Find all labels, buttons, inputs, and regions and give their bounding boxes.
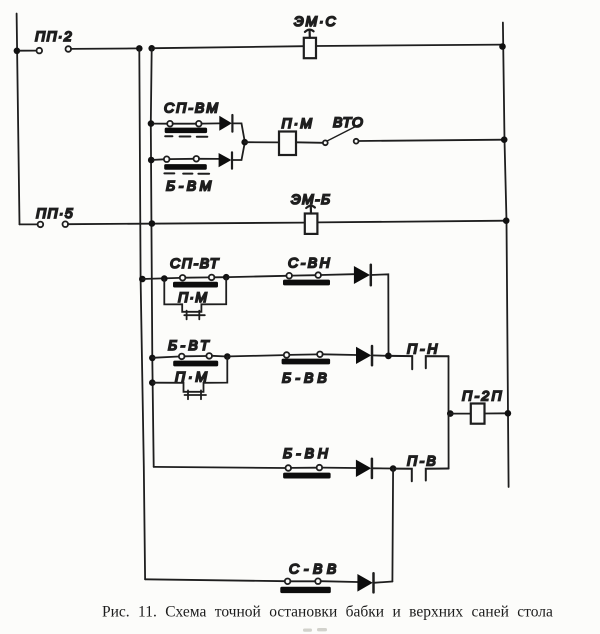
wire П-В up to П-2П node (448, 414, 450, 469)
wire П-Н down to П-2П (448, 356, 450, 413)
switch ПП-2 (20, 46, 72, 53)
solenoid ЭМ-Б (305, 206, 318, 234)
contact Б-ВТ (173, 353, 218, 366)
contact П-М parallel branch row4 (164, 277, 226, 319)
contact П-В (396, 469, 449, 482)
diode VD6 (357, 573, 373, 592)
svg-text:ЭМ-Б: ЭМ-Б (291, 191, 331, 207)
node rail-B Б-ВМ row (148, 157, 155, 164)
wire П-М to ВТО (296, 141, 323, 144)
svg-text:С-ВВ: С-ВВ (289, 561, 341, 577)
wire diode VD1 out (232, 123, 244, 141)
node rail-A СП-ВТ row (139, 276, 146, 283)
wire С-ВН to diode (321, 273, 354, 276)
node Б-ВН junction (390, 465, 397, 472)
wire rail B (right distribution) (151, 48, 154, 467)
wire СП-ВТ to С-ВН (229, 276, 287, 277)
svg-text:П·М: П·М (178, 289, 208, 305)
wire rail A corner to С-ВВ (145, 579, 285, 581)
node rail-A top (136, 45, 143, 52)
contact СП-ВТ (173, 275, 218, 288)
svg-text:СП-ВТ: СП-ВТ (170, 255, 220, 271)
contact Б-ВМ (154, 156, 210, 174)
wire П-2П to right rail (485, 412, 508, 414)
diode VD4 (356, 346, 372, 365)
wire СП-ВТ to rejoin node (214, 276, 226, 278)
wire VD5 to junction (372, 467, 393, 469)
svg-text:Б-ВВ: Б-ВВ (282, 370, 331, 386)
wire С-ВВ to diode (321, 580, 358, 583)
svg-text:П-В: П-В (407, 453, 438, 469)
contact П-М parallel branch row5 (152, 357, 227, 400)
node rail-B ПП-5 row (149, 220, 156, 227)
svg-text:ЭМ·С: ЭМ·С (294, 13, 337, 29)
node П-2П left (447, 410, 454, 417)
contact П-Н (391, 356, 448, 369)
svg-text:Б-ВН: Б-ВН (283, 445, 332, 461)
wire Б-ВТ row to Б-ВВ (230, 355, 285, 356)
node right-rail row2 (501, 136, 508, 143)
wire coil to right rail (316, 45, 503, 46)
wire top row to coil (154, 46, 304, 48)
wire right supply rail (503, 23, 509, 488)
relay coil П-2П (471, 404, 485, 424)
svg-text:Рис. 11. Схема точной остановк: Рис. 11. Схема точной остановки бабки и … (102, 604, 553, 621)
svg-text:СП-ВМ: СП-ВМ (164, 100, 220, 116)
svg-text:Б-ВМ: Б-ВМ (166, 178, 215, 194)
switch ВТО (323, 125, 359, 146)
node Б-ВТ rejoin (224, 353, 231, 360)
diode VD2 (219, 152, 232, 168)
wire to П-2П coil (450, 413, 471, 415)
wire ПП-5 row to coil (68, 223, 305, 225)
svg-text:С-ВН: С-ВН (288, 255, 332, 271)
wire diode VD2 out (232, 143, 245, 160)
wire ВТО to right rail (359, 140, 505, 141)
wire VD4 to junction (372, 354, 388, 356)
wire VD6 to riser (374, 582, 393, 583)
wire rail B to Б-ВТ (152, 357, 179, 358)
diode VD3 (354, 265, 371, 285)
node rail-B Б-ВТ row (149, 355, 156, 362)
wire Б-ВВ to diode (323, 353, 357, 356)
faint cut-off text smudge (303, 628, 327, 632)
contact СП-ВМ (154, 121, 208, 137)
node rail-B top (148, 45, 155, 52)
svg-text:П-Н: П-Н (407, 341, 440, 357)
wire junction down to С-ВВ row (391, 469, 394, 582)
wire Б-ВТ to rejoin (212, 355, 227, 358)
wire junction to П-М coil (245, 141, 279, 143)
svg-text:ПП·5: ПП·5 (36, 205, 74, 221)
contact С-ВН (283, 272, 330, 285)
svg-text:Б-ВТ: Б-ВТ (168, 337, 212, 353)
wire rail B corner to Б-ВН (154, 467, 286, 468)
svg-text:П·М: П·М (175, 369, 210, 385)
node supply-left junction (14, 48, 21, 55)
wire ЭМ-Б to right rail (318, 221, 507, 223)
wire VD3 to corner down (371, 274, 389, 356)
node diodes junction mid (385, 353, 392, 360)
contact Б-ВН (283, 465, 331, 479)
svg-text:ВТО: ВТО (333, 114, 364, 130)
contact С-ВВ (280, 578, 331, 593)
node right-rail П-2П row (505, 410, 512, 417)
node right-rail row1 (499, 43, 506, 50)
switch ПП-5 (20, 221, 69, 227)
wire Б-ВН to diode (322, 467, 356, 469)
node branch split (161, 275, 168, 282)
node rail-B СП-ВМ row (148, 120, 155, 127)
svg-text:П-2П: П-2П (462, 388, 504, 404)
wire СП-ВМ to diode (201, 122, 219, 124)
wire rail A to СП-ВТ (142, 278, 180, 279)
solenoid ЭМ-С (304, 30, 316, 59)
node rail-B П-М branch row5 (149, 379, 156, 386)
svg-text:ПП·2: ПП·2 (35, 28, 73, 44)
diode VD1 (219, 115, 232, 132)
wire Б-ВМ to diode (199, 158, 219, 160)
wire rail A (left distribution) (139, 48, 145, 579)
contact Б-ВВ (282, 352, 331, 365)
node right-rail row3 (503, 217, 510, 224)
node branch rejoin (223, 274, 230, 281)
relay coil П-М (279, 132, 296, 156)
node diode junction (241, 139, 248, 146)
wire left supply vertical (17, 14, 20, 225)
svg-text:П·М: П·М (282, 115, 314, 131)
wire top row to rails (71, 47, 139, 50)
diode VD5 (356, 459, 372, 478)
